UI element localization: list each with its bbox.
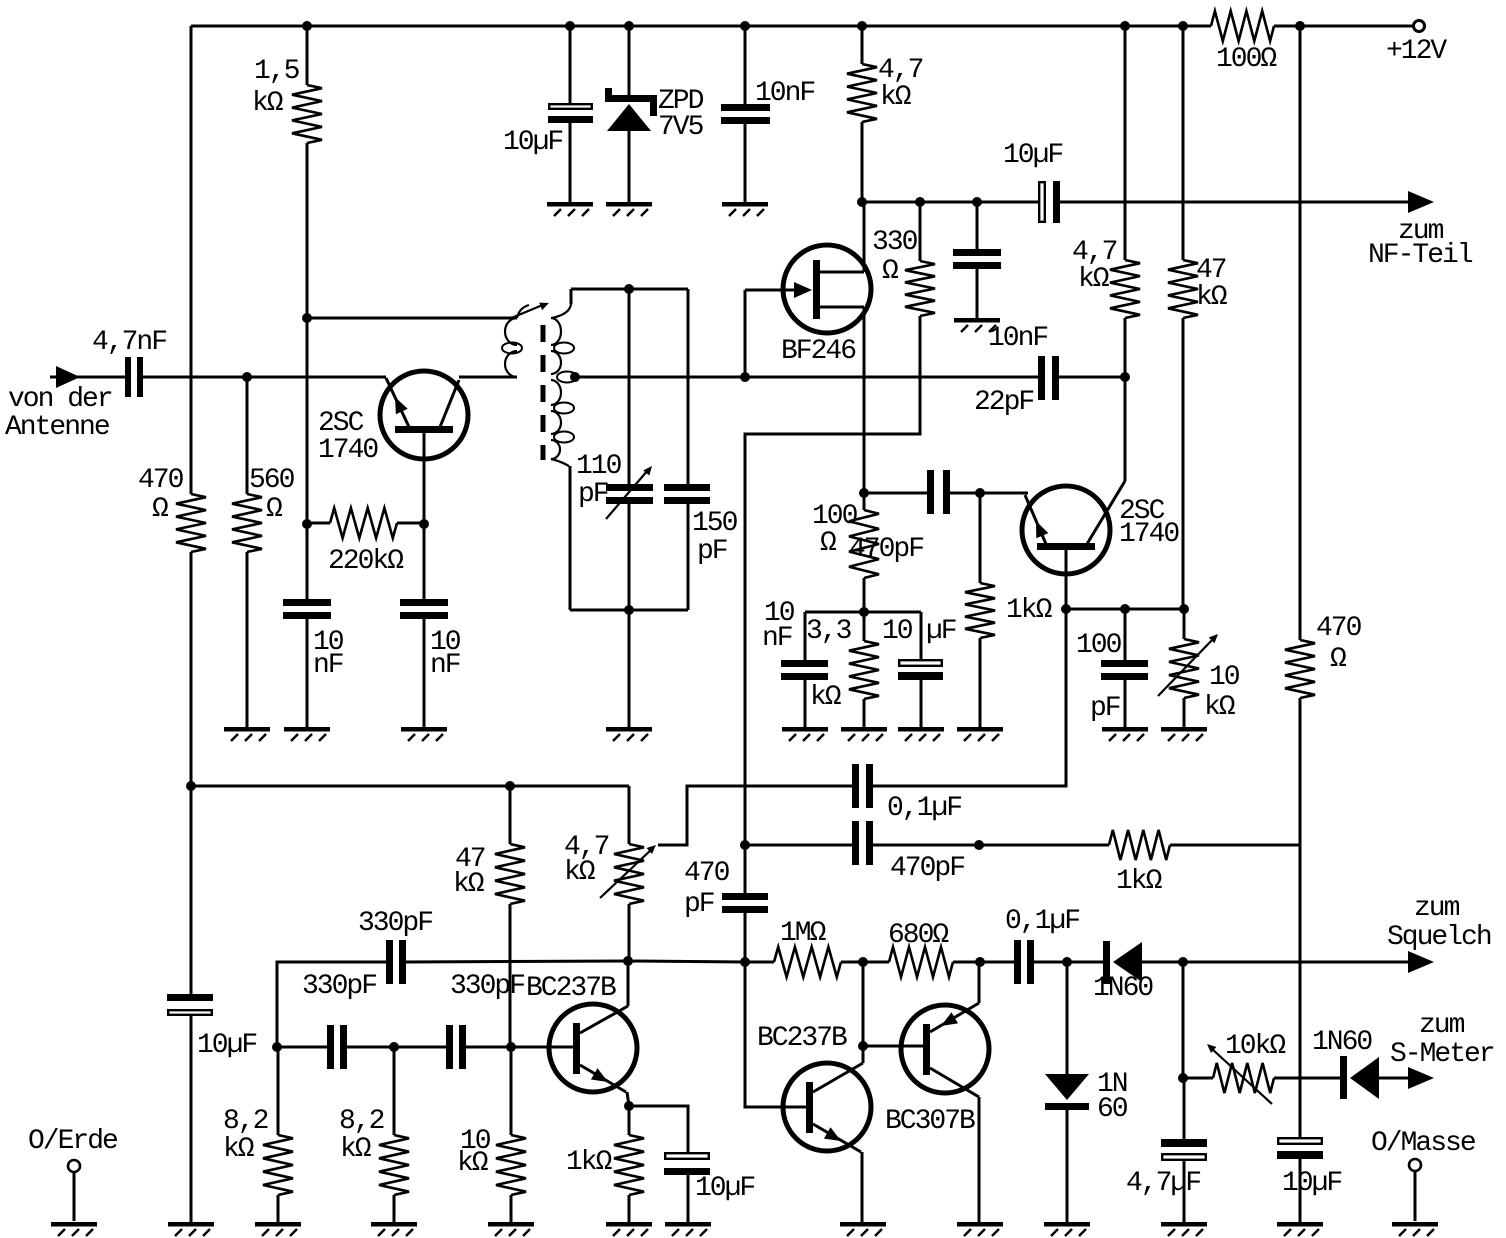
wire 10nF977 lead <box>976 202 979 250</box>
arrow zum Squelch <box>1387 893 1491 973</box>
node dot 920-202 <box>915 197 925 207</box>
svg-text:kΩ: kΩ <box>1078 264 1110 295</box>
ground 1125 <box>1102 727 1148 741</box>
capacitor 10uF left rail <box>167 994 256 1061</box>
node dot 863-1046 <box>858 1041 868 1051</box>
zener diode ZPD 7V5 <box>605 86 704 143</box>
wire 4.7kvar top <box>628 786 631 844</box>
ground 921 <box>898 727 944 741</box>
wire zener lead top <box>628 26 631 96</box>
wire 10nF to gnd 307 <box>306 619 309 727</box>
wire 10kosc top <box>510 1047 513 1135</box>
svg-text:Ω: Ω <box>266 494 283 525</box>
wire osc base bus 3 <box>466 1046 573 1049</box>
svg-text:330pF: 330pF <box>450 971 524 1002</box>
wire 220k left lead <box>307 522 330 525</box>
node dot rail-570 <box>565 21 575 31</box>
svg-text:1kΩ: 1kΩ <box>1006 595 1053 626</box>
capacitor 110pF variable <box>576 451 653 519</box>
svg-text:BC237B: BC237B <box>757 1023 847 1054</box>
wire 1125 mid <box>1124 318 1127 377</box>
ground 307 <box>284 727 330 741</box>
resistor 470Ohm left <box>138 465 206 552</box>
node dot rail-862 <box>857 21 867 31</box>
resistor 680Ohm <box>888 920 953 977</box>
svg-text:7V5: 7V5 <box>658 112 704 143</box>
node dot 307-524 <box>302 519 312 529</box>
svg-text:3,3: 3,3 <box>806 616 852 647</box>
resistor 47kOhm osc <box>453 844 525 904</box>
svg-text:+12V: +12V <box>1386 36 1447 67</box>
resistor 8.2kOhm a <box>223 1106 293 1195</box>
resistor 4.7kOhm right <box>1072 237 1140 318</box>
node dot 864-493 <box>859 488 869 498</box>
wire 470pF right <box>950 492 1025 495</box>
wire 8.2ka gnd <box>277 1195 280 1222</box>
wire 10nF805 lead <box>804 612 807 660</box>
node dot 629-289 <box>624 284 634 294</box>
wire 1125 to collector <box>1124 377 1127 481</box>
resistor 470Ohm right <box>1285 613 1362 698</box>
node dot 980-962 <box>975 957 985 967</box>
wire NF output line <box>862 201 1039 204</box>
terminal O/Erde <box>28 1126 117 1221</box>
resistor 10kOhm variable smeter <box>1207 1031 1286 1104</box>
resistor 8.2kOhm b <box>339 1106 409 1195</box>
node dot rail-629 <box>624 21 634 31</box>
node dot 629-610 <box>624 605 634 615</box>
wire 47kosc bottom <box>509 904 512 1047</box>
wire 10uF921 lead <box>920 612 923 660</box>
wire 10nF424 gnd <box>423 619 426 727</box>
wire osc base bus 2 <box>347 1046 446 1049</box>
wire src node <box>864 492 927 495</box>
wire 10uF921 gnd <box>920 680 923 727</box>
wire 1kosc gnd <box>628 1195 631 1222</box>
wire 470pF line right <box>873 844 1109 847</box>
transistor BF246 <box>745 245 871 367</box>
wire 220k right lead <box>397 522 424 525</box>
wire tap line <box>576 376 1038 379</box>
ground O-Erde <box>51 1222 97 1236</box>
svg-text:BC307B: BC307B <box>885 1106 975 1137</box>
svg-text:pF: pF <box>697 536 727 567</box>
svg-text:Ω: Ω <box>882 256 899 287</box>
wire base 2SC a <box>423 433 426 524</box>
arrow zum NF-Teil <box>1368 191 1473 271</box>
svg-text:Squelch: Squelch <box>1387 922 1491 953</box>
svg-text:µF: µF <box>926 616 956 647</box>
wire primary top lead <box>307 317 517 320</box>
wire left rail bottom <box>190 1016 193 1222</box>
node dot 745-962 <box>740 957 750 967</box>
svg-text:10µF: 10µF <box>1282 1168 1341 1199</box>
svg-text:330pF: 330pF <box>358 908 432 939</box>
wire det base bus <box>1066 608 1184 611</box>
node dot 510-786 <box>505 781 515 791</box>
svg-text:1,5: 1,5 <box>254 56 300 87</box>
svg-text:8,2: 8,2 <box>223 1106 268 1137</box>
ground 1067 <box>1044 1222 1090 1236</box>
svg-text:470: 470 <box>684 858 730 889</box>
wire bc237b collector <box>862 962 865 1063</box>
wire sq line 4 <box>1034 961 1103 964</box>
capacitor 330pF a <box>302 971 376 1069</box>
node dot 745-377 <box>740 372 750 382</box>
svg-text:zum: zum <box>1414 893 1460 924</box>
resistor 1MOhm <box>774 918 841 977</box>
arrow von der Antenne <box>5 327 166 443</box>
wire base to 10nF <box>423 524 426 600</box>
node dot 863-962 <box>858 957 868 967</box>
svg-text:1N60: 1N60 <box>1312 1027 1372 1058</box>
svg-text:Ω: Ω <box>820 528 837 559</box>
node dot 1184-609 <box>1179 604 1189 614</box>
wire bc307 emitter <box>978 962 981 1003</box>
svg-text:10µF: 10µF <box>1003 140 1062 171</box>
wire 10uF688 gnd <box>687 1175 690 1222</box>
wire BF246 source <box>863 307 866 493</box>
svg-text:10µF: 10µF <box>503 127 562 158</box>
wire 47kosc top <box>509 786 512 844</box>
svg-text:kΩ: kΩ <box>564 857 596 888</box>
node dot 979-845 <box>974 840 984 850</box>
transistor 2SC1740 a <box>318 371 468 466</box>
svg-text:470pF: 470pF <box>890 853 964 884</box>
wire left rail mid <box>190 552 193 786</box>
wire 10kosc gnd <box>510 1195 513 1222</box>
capacitor 10nF bf246 <box>953 249 1047 354</box>
wire 4.7kvar bottom <box>628 904 631 961</box>
node dot 394-1047 <box>389 1042 399 1052</box>
ground 805 <box>782 727 828 741</box>
svg-text:110: 110 <box>576 451 622 482</box>
wire 1067 gnd <box>1066 1110 1069 1222</box>
svg-text:pF: pF <box>578 479 608 510</box>
wire 4.7uF top <box>1183 1078 1186 1140</box>
ground 394 <box>371 1222 417 1236</box>
capacitor 0.1uF bfo <box>852 764 961 824</box>
wire 629 gnd lead <box>628 610 631 727</box>
wire smeter 2 <box>1274 1077 1340 1080</box>
svg-text:nF: nF <box>762 623 792 654</box>
wire 10kvar top <box>1183 609 1186 639</box>
ground 863 bot <box>840 1222 886 1236</box>
wire osc collector node <box>628 961 745 962</box>
svg-text:1N60: 1N60 <box>1093 973 1153 1004</box>
wire 8.2kb gnd <box>393 1195 396 1222</box>
wire 560 gnd lead <box>246 552 249 727</box>
wire bc237a collector <box>627 961 630 1006</box>
wire 8.2kb top <box>393 1047 396 1135</box>
ground 977 <box>954 318 1000 332</box>
node dot 1125-377 <box>1120 372 1130 382</box>
transistor BC237B a <box>526 973 637 1092</box>
resistor 1.5kOhm <box>252 56 322 143</box>
svg-text:kΩ: kΩ <box>880 82 912 113</box>
svg-text:0,1µF: 0,1µF <box>1005 906 1079 937</box>
wire 150pF bottom lead <box>687 504 690 610</box>
node dot 1125-609 <box>1120 604 1130 614</box>
wire collector to primary <box>459 376 517 379</box>
capacitor 22pF <box>974 356 1059 418</box>
svg-text:8,2: 8,2 <box>339 1106 384 1137</box>
node dot 628-961 <box>623 956 633 966</box>
wire 3.3k gnd <box>863 699 866 727</box>
wire 4.7k to out node <box>861 122 864 202</box>
svg-text:1kΩ: 1kΩ <box>566 1147 613 1178</box>
ground 980 mid <box>957 727 1003 741</box>
wire supply bus 786 <box>191 785 629 788</box>
capacitor 0.1uF sq <box>1005 906 1079 984</box>
resistor 10kOhm variable mid <box>1158 634 1240 723</box>
node dot 863-612 <box>859 607 869 617</box>
transformer core adjust arrow <box>509 303 549 319</box>
wire 570 to gnd <box>569 123 572 202</box>
diode 1N60 smeter <box>1312 1027 1379 1099</box>
ground 1184 mid <box>1161 727 1207 741</box>
wire 100pF lead <box>1124 609 1127 660</box>
svg-text:S-Meter: S-Meter <box>1390 1039 1494 1070</box>
wire 100R top lead <box>863 493 866 510</box>
node dot rail-307 <box>302 21 312 31</box>
svg-text:kΩ: kΩ <box>1196 282 1228 313</box>
transistor BC237B b <box>757 1023 871 1152</box>
svg-text:nF: nF <box>430 650 460 681</box>
capacitor 150pF <box>664 484 738 567</box>
capacitor 10nF top <box>721 78 814 124</box>
wire BF246 drain <box>863 202 866 272</box>
wire osc top right <box>406 961 628 962</box>
svg-text:Antenne: Antenne <box>5 412 109 443</box>
svg-text:560: 560 <box>249 465 295 496</box>
node dot 1066-609 <box>1061 604 1071 614</box>
svg-text:Ω: Ω <box>1330 644 1347 675</box>
resistor 560Ohm <box>232 465 295 552</box>
ground 424 <box>401 727 447 741</box>
wire BF246 gate lead <box>744 290 747 377</box>
node dot 745-845 <box>740 840 750 850</box>
wire bc307 collector <box>978 1097 981 1222</box>
wire det base lead <box>1065 550 1068 609</box>
node dot 191-786 <box>186 781 196 791</box>
capacitor 470pF sq <box>852 821 964 884</box>
ground 863 <box>841 727 887 741</box>
node dot 247-377 <box>242 372 252 382</box>
svg-text:BF246: BF246 <box>781 336 855 367</box>
node dot 307-318 <box>302 313 312 323</box>
wire secondary bottom lead <box>569 466 572 610</box>
arrow zum S-Meter <box>1390 1010 1494 1089</box>
wire 1300 upper <box>1299 26 1302 640</box>
svg-text:470: 470 <box>1316 613 1362 644</box>
ground 1300 <box>1277 1222 1323 1236</box>
wire bc307 base lead <box>863 1045 923 1048</box>
diode 1N60 squelch <box>1093 941 1153 1004</box>
svg-text:330: 330 <box>872 227 918 258</box>
wire 1k det gnd <box>979 638 982 727</box>
transistor 2SC1740 b <box>1022 481 1179 574</box>
wire +12V top rail <box>191 25 1211 28</box>
wire 470pF line left <box>745 844 852 847</box>
svg-text:von der: von der <box>8 384 112 415</box>
svg-text:kΩ: kΩ <box>1204 692 1236 723</box>
wire zener to gnd <box>628 131 631 202</box>
wire osc base bus 1 <box>277 1046 327 1049</box>
node dot 1183-1078 <box>1178 1073 1188 1083</box>
ground 745 top <box>722 202 768 216</box>
svg-text:4,7µF: 4,7µF <box>1126 1168 1200 1199</box>
resistor 4.7kOhm drain <box>847 55 923 122</box>
node dot 862-202 <box>857 197 867 207</box>
resistor 1kOhm det <box>965 583 1053 638</box>
wire 10nF745 to gnd <box>744 124 747 202</box>
svg-text:10nF: 10nF <box>755 78 814 109</box>
capacitor 10uF osc <box>664 1153 754 1204</box>
wire wiper to 0.1uF <box>658 786 852 845</box>
resistor 47kOhm right <box>1168 255 1228 318</box>
resistor 3.3kOhm <box>806 616 879 713</box>
svg-text:Ω: Ω <box>152 494 169 525</box>
svg-text:10nF: 10nF <box>988 323 1047 354</box>
node dot rail-745 <box>740 21 750 31</box>
wire 4.7uF gnd <box>1183 1161 1186 1222</box>
svg-text:10µF: 10µF <box>197 1030 256 1061</box>
wire 10nF977 gnd lead <box>976 269 979 318</box>
svg-text:1740: 1740 <box>318 435 378 466</box>
wire emitter to 10uF <box>629 1106 688 1153</box>
wire 560 top lead <box>246 377 249 494</box>
resistor 4.7kOhm variable <box>564 832 656 904</box>
wire 745 to base <box>745 962 806 1107</box>
wire src filter bus <box>805 611 921 614</box>
ground 980 bot <box>957 1222 1003 1236</box>
wire 8.2ka top <box>277 1047 280 1135</box>
capacitor 10nF base2 <box>400 599 461 681</box>
wire sq line 1 <box>745 961 774 964</box>
node dot 277-1047 <box>272 1042 282 1052</box>
transistor BC307B <box>885 1003 989 1137</box>
resistor 330Ohm <box>872 227 935 316</box>
wire 745 mid <box>744 845 747 893</box>
node dot rail-1183 <box>1178 21 1188 31</box>
wire 1183 sq down <box>1182 962 1185 1078</box>
capacitor 4.7nF <box>125 357 143 397</box>
resistor 1kOhm osc <box>566 1135 644 1195</box>
capacitor 470pF vert <box>684 858 768 920</box>
svg-text:nF: nF <box>313 650 343 681</box>
node dot rail-1300 <box>1295 21 1305 31</box>
wire det emitter lead <box>1025 492 1028 495</box>
node dot tap <box>570 372 580 382</box>
svg-text:10: 10 <box>882 616 913 647</box>
transformer core <box>541 325 546 460</box>
wire 330 bottom step <box>745 316 920 845</box>
capacitor 470pF det <box>849 470 950 565</box>
wire 150pF top lead <box>687 289 690 485</box>
capacitor 10uF source <box>882 616 956 680</box>
node dot 629-1106 <box>624 1101 634 1111</box>
wire 745 lead <box>744 26 747 105</box>
svg-text:NF-Teil: NF-Teil <box>1368 240 1473 271</box>
wire 1300 gnd <box>1299 1159 1302 1222</box>
wire tank bottom <box>570 609 688 612</box>
capacitor 10uF coupling <box>1003 140 1062 223</box>
svg-text:kΩ: kΩ <box>453 869 485 900</box>
wire left rail lower <box>190 786 193 995</box>
wire 22pF right lead <box>1059 376 1125 379</box>
node dot 1067-962 <box>1062 957 1072 967</box>
wire 1067 down <box>1066 962 1069 1074</box>
wire 1k sq right <box>1170 844 1300 847</box>
capacitor 10nF base1 <box>283 599 344 681</box>
svg-text:kΩ: kΩ <box>223 1134 255 1165</box>
wire top rail right of 100R <box>1274 25 1414 28</box>
wire 0.1uF right <box>873 609 1066 786</box>
svg-text:kΩ: kΩ <box>340 1134 372 1165</box>
wire 307 down to 220k <box>306 318 309 524</box>
wire 1125 top <box>1124 26 1127 260</box>
ground 629 bot <box>606 1222 652 1236</box>
svg-text:kΩ: kΩ <box>252 88 284 119</box>
svg-text:O/Masse: O/Masse <box>1371 1128 1475 1159</box>
diode 1N60 vertical <box>1045 1069 1128 1125</box>
node dot 1183-962 <box>1178 957 1188 967</box>
ground 247 <box>224 727 270 741</box>
ground 511 <box>488 1222 534 1236</box>
svg-text:10: 10 <box>1209 662 1240 693</box>
svg-text:330pF: 330pF <box>302 971 376 1002</box>
svg-text:1740: 1740 <box>1119 519 1179 550</box>
wire 1300 lower <box>1299 698 1302 1138</box>
wire 570 lead <box>569 26 572 104</box>
ground O-Masse <box>1392 1222 1438 1236</box>
terminal O/Masse <box>1371 1128 1475 1221</box>
svg-text:680Ω: 680Ω <box>888 920 949 951</box>
svg-text:60: 60 <box>1097 1094 1128 1125</box>
wire 745 lower <box>744 913 747 962</box>
wire 1kosc top <box>628 1106 631 1135</box>
wire 1k det top <box>979 493 982 583</box>
node dot 980-493 <box>975 488 985 498</box>
svg-text:22pF: 22pF <box>974 387 1033 418</box>
wire 100R bottom lead <box>863 578 866 612</box>
svg-text:0,1µF: 0,1µF <box>887 793 961 824</box>
wire osc top left <box>277 962 386 1047</box>
ground 688 <box>665 1222 711 1236</box>
resistor 10kOhm osc <box>457 1126 526 1195</box>
transformer secondary coil <box>551 289 577 466</box>
svg-text:O/Erde: O/Erde <box>28 1126 117 1157</box>
node dot 424-524 <box>419 519 429 529</box>
wire secondary top <box>571 288 688 291</box>
wire 1183 down <box>1182 318 1185 609</box>
ground 278 <box>255 1222 301 1236</box>
wire 100pF gnd <box>1124 680 1127 727</box>
resistor 1kOhm sq <box>1109 830 1170 897</box>
svg-text:220kΩ: 220kΩ <box>328 546 404 577</box>
resistor 100Ohm source <box>812 501 879 578</box>
node dot 977-202 <box>972 197 982 207</box>
svg-text:1MΩ: 1MΩ <box>780 918 827 949</box>
svg-text:kΩ: kΩ <box>810 682 842 713</box>
wire 10kvar gnd <box>1183 698 1186 727</box>
ground left rail <box>168 1222 214 1236</box>
wire smeter 1 <box>1183 1077 1213 1080</box>
wire 4.7k top lead <box>861 26 864 64</box>
svg-text:10µF: 10µF <box>695 1173 754 1204</box>
wire sq line 3 <box>953 961 1014 964</box>
